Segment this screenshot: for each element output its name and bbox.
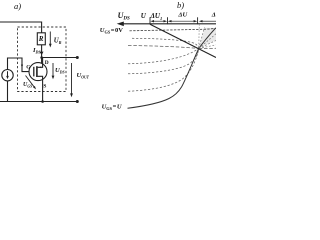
curve 5 dashed (128, 49, 199, 74)
load line (150, 24, 216, 57)
svg-text:UGS = 0V: UGS = 0V (100, 27, 123, 35)
wire drain stub (42, 58, 44, 64)
svg-text:R: R (38, 35, 44, 43)
fan ray 4 (199, 45, 216, 49)
svg-text:UDS: UDS (55, 67, 65, 75)
wire current source to gate (8, 58, 30, 72)
dashed box (FET equivalent network) (18, 27, 67, 92)
voltage arrow U_OUT (70, 63, 90, 97)
solid curve U_GS=U (128, 49, 199, 109)
svg-text:S: S (43, 84, 46, 90)
tick dU right (197, 17, 199, 24)
wire source to bottom rail (42, 80, 44, 102)
tick U (149, 17, 151, 24)
node output terminal top (76, 56, 79, 59)
wire bottom rail (0, 101, 77, 103)
curve U_GS=0V (130, 28, 217, 31)
node output terminal bottom (76, 100, 79, 103)
svg-text:ΔU: ΔU (211, 12, 216, 19)
current arrow I_DS (32, 47, 44, 55)
node drain junction (40, 56, 43, 59)
svg-text:a): a) (14, 1, 21, 11)
shaded fan region (199, 28, 216, 49)
axis U_DS (graph) (123, 23, 216, 25)
gate feed arrow (21, 65, 23, 68)
tick dU1 right (167, 17, 169, 24)
curve 3 dashed (128, 46, 199, 49)
current source I1 (2, 70, 13, 81)
wire current source to bottom rail (7, 81, 9, 102)
voltage arrow U_DS (52, 63, 65, 79)
svg-text:UOUT: UOUT (77, 72, 90, 80)
svg-text:UDS: UDS (118, 11, 130, 22)
curve 6 dashed (128, 49, 199, 92)
wire drain node to output terminal (42, 57, 78, 59)
measure arrow dU (168, 20, 197, 22)
curve 2 dashed (132, 38, 199, 48)
svg-text:U: U (141, 12, 147, 20)
curve 4 dashed (128, 49, 199, 64)
svg-text:b): b) (177, 0, 184, 10)
svg-text:D: D (45, 60, 49, 66)
measure arrow dU1 (150, 20, 167, 22)
svg-text:IDS: IDS (32, 47, 41, 55)
svg-text:UGS = U: UGS = U (102, 104, 122, 112)
wire top rail (0, 22, 42, 33)
fan ray 2 (199, 34, 216, 49)
voltage arrow U_GS (23, 76, 36, 90)
curve 3 continuation ray (199, 47, 216, 49)
measure arrow right clipped (199, 20, 216, 22)
svg-text:ΔU: ΔU (177, 12, 187, 19)
fan ray steep (199, 28, 205, 49)
svg-text:ΔU1: ΔU1 (150, 12, 163, 21)
wire resistor to drain node (41, 45, 43, 64)
construction line tick to origin (198, 24, 201, 49)
resistor R (37, 33, 45, 45)
solid curve mirror ray (199, 28, 216, 49)
svg-text:UR: UR (54, 37, 62, 45)
voltage arrow U_R (49, 32, 62, 48)
node source junction (41, 100, 44, 103)
transistor T1 (FET) (29, 63, 47, 81)
fan ray 3 (199, 41, 216, 49)
